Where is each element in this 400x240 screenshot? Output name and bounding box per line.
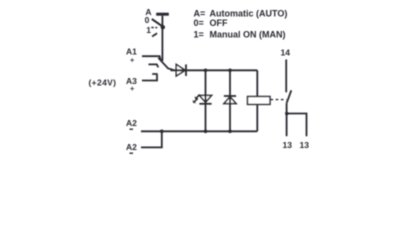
LED V1 cathode bar [199, 103, 211, 105]
diode D1 series triangle [176, 64, 185, 76]
diode D2 triangle apex up [224, 97, 236, 104]
svg-text:Manual ON (MAN): Manual ON (MAN) [210, 30, 286, 40]
terminal A2 first polarity - [130, 128, 134, 130]
svg-text:(+24V): (+24V) [89, 78, 117, 88]
wire top rail [171, 69, 258, 71]
terminal A2 second polarity - [130, 152, 134, 154]
svg-text:13: 13 [300, 140, 310, 150]
svg-text:14: 14 [281, 48, 291, 58]
svg-text:Automatic (AUTO): Automatic (AUTO) [210, 8, 288, 18]
selector switch S1 position tick 1 [152, 33, 157, 36]
svg-text:A2: A2 [126, 142, 137, 152]
node contact common junction [285, 112, 289, 116]
selector switch S1 pivot dot [161, 25, 165, 29]
wire contact common down [286, 103, 288, 136]
selector switch S1 shaft [161, 16, 163, 61]
wire A1 to switch contact A [142, 56, 161, 60]
relay coil K1 [248, 97, 271, 105]
wire coil branch upper [256, 70, 258, 96]
node bottom rail LED junction [204, 130, 208, 134]
wire branch to second 13 [287, 114, 307, 137]
svg-text:+: + [130, 56, 135, 65]
relay contact movable lever [287, 90, 292, 103]
svg-text:13: 13 [283, 140, 293, 150]
node bottom rail A2 junction [160, 130, 164, 134]
svg-text:1=: 1= [194, 30, 204, 40]
node bottom rail diode junction [228, 130, 232, 134]
selector switch S1 manual actuator T-handle [156, 13, 169, 16]
wire LED branch upper [205, 70, 207, 104]
svg-text:0: 0 [145, 15, 150, 25]
svg-text:OFF: OFF [210, 18, 228, 28]
svg-text:A2: A2 [126, 118, 137, 128]
svg-text:+: + [130, 84, 135, 93]
wire LED branch lower [205, 95, 207, 131]
svg-text:1: 1 [146, 25, 151, 35]
selector switch S1 position lever pointing to A [152, 19, 165, 28]
diode D2 cathode bar [224, 95, 236, 97]
switch S1 movable lever [158, 58, 174, 71]
wire bottom rail [141, 130, 257, 132]
wire flyback diode branch lower [229, 96, 231, 131]
LED V1 emission arrows [194, 95, 200, 103]
wire A3 to switch contact 1 [142, 74, 158, 81]
node top rail LED junction [204, 69, 208, 73]
wire coil branch lower [256, 104, 258, 131]
svg-text:A=: A= [194, 8, 206, 18]
diode D1 cathode bar [185, 64, 187, 76]
node top rail diode junction [228, 69, 232, 73]
switch contact 0 stub [149, 64, 159, 67]
selector switch S1 position tick 0 [151, 27, 157, 29]
wire terminal 14 down to fixed contact [285, 60, 287, 93]
dashed mechanical link coil to contact [271, 99, 287, 101]
wire flyback diode branch upper [229, 70, 231, 103]
wire A2 second to bottom rail [141, 131, 162, 147]
svg-text:0=: 0= [194, 18, 204, 28]
LED V1 triangle [199, 95, 211, 102]
